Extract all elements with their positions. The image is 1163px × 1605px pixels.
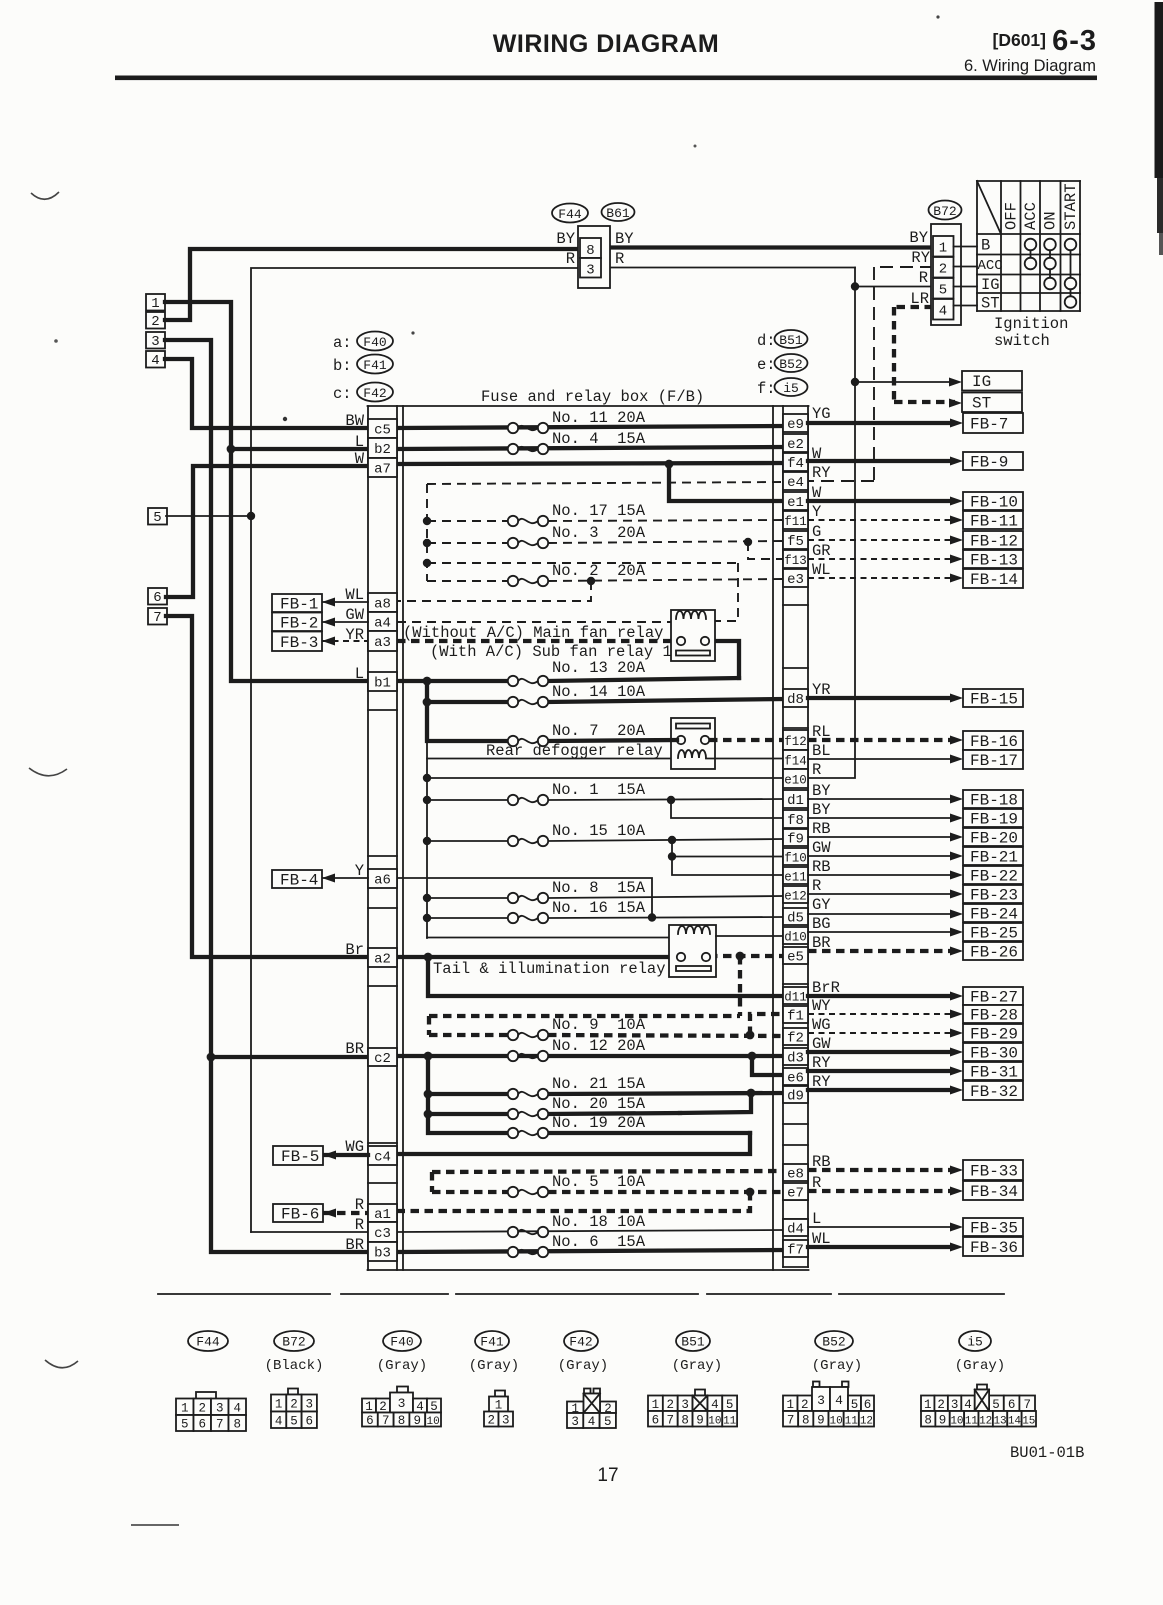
svg-text:f13: f13: [784, 554, 807, 568]
node box FB-27: [963, 987, 1023, 1007]
wire label BY at right strip y795: [812, 782, 831, 800]
wire label GW at right strip y1048: [812, 1035, 831, 1053]
svg-text:YG: YG: [812, 405, 831, 423]
svg-text:1: 1: [495, 1399, 503, 1413]
svg-text:4: 4: [939, 304, 947, 320]
svg-text:2: 2: [487, 1414, 495, 1428]
pin a8 (left strip): [368, 593, 397, 613]
svg-text:d3: d3: [787, 1051, 804, 1067]
svg-text:6: 6: [864, 1398, 872, 1412]
svg-text:f2: f2: [787, 1031, 804, 1047]
junction dot No.12 bus: [424, 1052, 433, 1061]
fuse No. 6 15A: [508, 1233, 646, 1257]
relay Tail and illumination caption: [433, 960, 666, 978]
svg-text:R: R: [812, 1174, 821, 1192]
svg-text:8: 8: [398, 1414, 406, 1428]
pin f7 (right strip): [783, 1240, 808, 1259]
wire No.1 output to d1 and f8: [548, 799, 783, 818]
svg-text:L: L: [812, 1210, 821, 1228]
svg-text:5: 5: [851, 1398, 859, 1412]
connector F41 legend oval: [333, 355, 393, 376]
pin d9 (right strip): [783, 1086, 808, 1105]
wire net L from box1 (b2/b1 feeder): [165, 302, 368, 681]
junction dot f10 tee: [668, 852, 676, 860]
wire label YG at right strip y418: [812, 405, 831, 423]
fuse No. 17 15A: [508, 502, 646, 526]
wire label WL at right strip y574: [812, 561, 831, 579]
wire to FB-19: [808, 814, 963, 823]
wire label BY at B72 pin1: [909, 229, 928, 247]
wire label BY at right strip y814: [812, 801, 831, 819]
junction dot b2 feeder: [227, 445, 236, 454]
svg-text:c4: c4: [374, 1150, 391, 1166]
wire relay coil feed line to Main fan relay: [427, 563, 738, 621]
wire to FB-5: [323, 1151, 368, 1160]
junction dot f1 branch: [746, 1031, 755, 1040]
svg-text:(Gray): (Gray): [377, 1358, 427, 1374]
wire No.18 row c3 to d4: [397, 1230, 783, 1232]
svg-text:3: 3: [951, 1398, 959, 1412]
wire label BR at right strip y947: [812, 934, 831, 952]
scan artifact arcs and specks: [29, 15, 940, 1526]
svg-text:BL: BL: [812, 742, 831, 760]
svg-text:OFF: OFF: [1003, 202, 1021, 230]
svg-text:(Gray): (Gray): [672, 1358, 722, 1374]
wire net BW from box4 to c5: [165, 359, 368, 428]
fuse No. 2 20A: [508, 562, 646, 586]
header rule line: [115, 76, 1097, 81]
svg-text:[D601]: [D601]: [993, 30, 1047, 50]
relay Tail and illumination relay: [669, 925, 716, 977]
node box FB-21: [963, 847, 1023, 867]
svg-text:FB-23: FB-23: [970, 887, 1018, 905]
svg-text:d:: d:: [757, 332, 776, 350]
wire label R at right strip y774: [812, 761, 821, 779]
wire net Br from box7 to a2: [166, 616, 368, 957]
node box FB-1: [272, 594, 322, 614]
svg-text:a3: a3: [374, 635, 391, 651]
pin f11 (right strip): [783, 511, 808, 529]
svg-text:RY: RY: [812, 1054, 831, 1072]
svg-text:R: R: [566, 250, 575, 268]
node box 7: [148, 608, 167, 626]
connector B52 pinout: [783, 1331, 874, 1427]
svg-text:BR: BR: [812, 934, 831, 952]
svg-text:9: 9: [817, 1413, 825, 1427]
node box 3: [146, 332, 165, 350]
pin f12 (right strip): [783, 730, 808, 750]
node box FB-7: [963, 413, 1023, 434]
svg-text:No. 5 10A: No. 5 10A: [552, 1173, 646, 1191]
wire net Br a2 row to Tail relay contact: [397, 955, 678, 959]
wire label RB at right strip y871: [812, 858, 831, 876]
wire e5 net drop to No.9 feed box: [738, 956, 742, 1016]
svg-text:R: R: [812, 877, 821, 895]
wire label L at left strip y446: [355, 433, 364, 451]
wire net RY pin2 to e4 (dashed): [808, 267, 933, 481]
svg-text:17: 17: [597, 1465, 618, 1486]
fuse No. 15 10A: [508, 822, 646, 846]
junction dot No.21 feed: [424, 1090, 433, 1099]
svg-text:GY: GY: [812, 896, 831, 914]
svg-text:LR: LR: [910, 290, 929, 308]
svg-text:6: 6: [153, 590, 161, 606]
svg-text:ON: ON: [1042, 211, 1060, 230]
svg-text:d5: d5: [787, 911, 804, 927]
node box FB-19: [963, 809, 1023, 829]
fuse No. 7 20A: [508, 722, 646, 746]
fuse No. 13 20A: [508, 659, 646, 686]
wire No.9 dashed feed box: [429, 1016, 740, 1035]
svg-text:W: W: [355, 450, 365, 468]
svg-text:d1: d1: [787, 793, 804, 809]
svg-text:c:: c:: [333, 385, 352, 403]
svg-text:a6: a6: [374, 873, 391, 889]
svg-text:FB-20: FB-20: [970, 830, 1018, 848]
pin e4 (right strip): [783, 472, 808, 491]
svg-text:7: 7: [153, 610, 161, 626]
node box FB-36: [963, 1237, 1023, 1257]
svg-text:No. 14 10A: No. 14 10A: [552, 683, 646, 701]
svg-text:BY: BY: [812, 782, 831, 800]
connector B51 pinout: [648, 1331, 737, 1427]
node box FB-2: [272, 613, 322, 633]
svg-text:RL: RL: [812, 723, 831, 741]
pin f4 (right strip): [783, 453, 808, 472]
svg-text:f12: f12: [784, 735, 807, 749]
junction dot RY to No.3: [423, 539, 431, 547]
wire to FB-22: [808, 871, 963, 880]
svg-text:7: 7: [787, 1413, 795, 1427]
wire to FB-10: [808, 497, 963, 506]
svg-text:Br: Br: [345, 941, 364, 959]
pin c4 (left strip): [368, 1146, 397, 1166]
connector F44 pinout: [176, 1331, 246, 1432]
node box FB-28: [963, 1005, 1023, 1025]
wire label GR at right strip y555: [812, 542, 831, 560]
fuse No. 20 15A: [508, 1095, 646, 1119]
connector strip d/e/f (right) rails: [783, 406, 808, 1267]
wire label RL at right strip y736: [812, 723, 831, 741]
svg-text:FB-24: FB-24: [970, 906, 1018, 924]
svg-text:BU01-01B: BU01-01B: [1010, 1444, 1084, 1462]
svg-text:RY: RY: [812, 1073, 831, 1091]
junction dot f10 branch: [668, 836, 676, 844]
wire to FB-32: [808, 1086, 963, 1095]
svg-text:START: START: [1062, 183, 1080, 230]
wire to FB-2: [322, 618, 368, 627]
svg-text:WG: WG: [812, 1016, 831, 1034]
connector F40 legend oval: [333, 332, 393, 353]
wire label L at left strip y678: [355, 665, 364, 683]
svg-text:BY: BY: [812, 801, 831, 819]
svg-text:14: 14: [1008, 1415, 1022, 1427]
svg-text:8: 8: [681, 1413, 689, 1427]
node box FB-15: [963, 689, 1023, 709]
svg-text:IG: IG: [972, 373, 991, 391]
svg-text:1: 1: [275, 1398, 283, 1412]
svg-text:F41: F41: [363, 358, 387, 373]
pin f5 (right strip): [783, 531, 808, 550]
svg-text:Tail & illumination relay: Tail & illumination relay: [433, 960, 666, 978]
svg-text:FB-36: FB-36: [970, 1239, 1018, 1257]
svg-text:FB-11: FB-11: [970, 513, 1018, 531]
svg-text:FB-13: FB-13: [970, 552, 1018, 570]
svg-text:F40: F40: [390, 1335, 413, 1350]
connector B72 pinout: [265, 1331, 324, 1428]
svg-text:e3: e3: [787, 572, 804, 588]
junction dot f8 branch: [667, 796, 675, 804]
node box FB-24: [963, 904, 1023, 924]
svg-text:4: 4: [275, 1414, 283, 1428]
wire label BrR at right strip y992: [812, 979, 840, 997]
pin a7 (left strip): [368, 458, 397, 478]
svg-text:d8: d8: [787, 692, 804, 708]
svg-text:switch: switch: [994, 332, 1050, 350]
junction dot e5 branch: [736, 952, 745, 961]
junction dot No.14 feed: [423, 698, 432, 707]
fuse No. 5 10A: [508, 1173, 646, 1197]
svg-text:W: W: [812, 445, 822, 463]
pin d4 (right strip): [783, 1219, 808, 1238]
svg-text:6: 6: [652, 1413, 660, 1427]
pin e2 (right strip): [783, 434, 808, 453]
fuse and relay box caption: [481, 388, 704, 406]
wire label RY at B72 pin2: [911, 249, 930, 267]
svg-text:Fuse and relay box (F/B): Fuse and relay box (F/B): [481, 388, 704, 406]
wire to FB-34: [808, 1187, 963, 1196]
svg-text:b1: b1: [374, 676, 391, 692]
wire label WG at right strip y1029: [812, 1016, 831, 1034]
svg-text:11: 11: [965, 1415, 979, 1427]
fuse No. 1 15A: [508, 781, 646, 805]
svg-text:1: 1: [652, 1398, 660, 1412]
ignition switch contact table: [954, 181, 1081, 313]
svg-text:GW: GW: [812, 1035, 831, 1053]
svg-text:(Black): (Black): [265, 1358, 324, 1374]
svg-text:FB-3: FB-3: [280, 634, 318, 652]
wire c2 bus to No.21/No.20/No.19: [428, 1056, 508, 1133]
junction dot RY to No.17: [423, 517, 431, 525]
fuse No. 3 20A: [508, 524, 646, 548]
svg-text:RB: RB: [812, 1153, 831, 1171]
wire to FB-20: [808, 833, 963, 842]
wire label R left of F44: [566, 250, 575, 268]
wire to FB-13: [808, 555, 963, 564]
svg-text:RY: RY: [911, 249, 930, 267]
svg-text:F44: F44: [558, 207, 582, 222]
page header title: [493, 30, 719, 58]
pin f14 (right strip): [783, 750, 808, 769]
svg-text:1: 1: [181, 1401, 189, 1415]
junction dot R at pin5 branch: [851, 282, 859, 290]
connector F41 pinout: [469, 1331, 519, 1428]
svg-text:6: 6: [305, 1414, 313, 1428]
wire label GW at left strip y619: [345, 606, 364, 624]
junction dot c2 feeder: [207, 1053, 216, 1062]
svg-text:R: R: [919, 269, 928, 287]
wire No.19 output to c4 WG: [397, 1133, 750, 1154]
relay Rear defogger relay: [671, 718, 715, 769]
svg-text:4: 4: [233, 1401, 241, 1415]
svg-text:6-3: 6-3: [1052, 25, 1097, 57]
svg-text:FB-21: FB-21: [970, 849, 1018, 867]
svg-text:BW: BW: [345, 412, 364, 430]
svg-text:10: 10: [950, 1415, 963, 1427]
svg-text:2: 2: [937, 1398, 945, 1412]
pin e1 (right strip): [783, 492, 808, 511]
svg-text:9: 9: [939, 1413, 947, 1427]
svg-text:No. 17 15A: No. 17 15A: [552, 502, 646, 520]
wire label R at left strip y1209: [355, 1196, 364, 1214]
svg-text:B72: B72: [933, 204, 956, 219]
connector B51 legend oval: [757, 330, 808, 350]
svg-text:a4: a4: [374, 616, 391, 632]
svg-text:B61: B61: [606, 206, 630, 221]
svg-text:FB-17: FB-17: [970, 752, 1018, 770]
svg-text:ACC: ACC: [978, 258, 1003, 274]
svg-text:e2: e2: [787, 437, 804, 453]
fuse No. 14 10A: [508, 683, 646, 707]
svg-text:12: 12: [979, 1415, 992, 1427]
wire a3 YR to Main fan relay contact (bold dashed): [397, 639, 677, 643]
wire label BW at left strip y425: [345, 412, 364, 430]
node box FB-3: [272, 632, 322, 652]
svg-text:c5: c5: [374, 423, 391, 439]
svg-text:15: 15: [1022, 1415, 1035, 1427]
pin c2 (left strip): [368, 1048, 397, 1067]
svg-text:FB-9: FB-9: [970, 454, 1008, 472]
svg-text:B51: B51: [779, 333, 803, 348]
svg-text:BY: BY: [615, 230, 634, 248]
svg-text:B51: B51: [681, 1335, 705, 1350]
svg-text:BY: BY: [556, 230, 575, 248]
wire label BY right of B61: [615, 230, 634, 248]
svg-text:Y: Y: [812, 503, 822, 521]
pin d3 (right strip): [783, 1048, 808, 1067]
svg-text:FB-28: FB-28: [970, 1007, 1018, 1025]
svg-text:No. 2 20A: No. 2 20A: [552, 562, 646, 580]
svg-text:3: 3: [681, 1398, 689, 1412]
wire label RB at right strip y833: [812, 820, 831, 838]
svg-text:FB-10: FB-10: [970, 494, 1018, 512]
svg-text:(Gray): (Gray): [558, 1358, 608, 1374]
relay Main fan relay caption: [403, 624, 672, 661]
wire to FB-36: [808, 1243, 963, 1252]
svg-text:6: 6: [366, 1414, 374, 1428]
wire No.21 and No.20 outputs to d9: [548, 1093, 783, 1114]
connector F40 pinout: [362, 1331, 441, 1428]
svg-text:No. 4 15A: No. 4 15A: [552, 430, 646, 448]
svg-text:1: 1: [924, 1398, 932, 1412]
svg-text:No. 3 20A: No. 3 20A: [552, 524, 646, 542]
svg-text:FB-29: FB-29: [970, 1026, 1018, 1044]
junction dot No.1 feed: [423, 796, 431, 804]
svg-text:No. 11 20A: No. 11 20A: [552, 409, 646, 427]
wire No.11 row c5 to e9: [397, 426, 783, 428]
svg-text:a:: a:: [333, 334, 352, 352]
svg-text:4: 4: [151, 353, 159, 369]
wire label YR at right strip y694: [812, 681, 831, 699]
svg-text:BY: BY: [909, 229, 928, 247]
wire to FB-6: [323, 1209, 368, 1218]
connector i5 legend oval: [757, 378, 808, 398]
node box FB-23: [963, 885, 1023, 905]
wire label BR at left strip y1249: [345, 1236, 364, 1254]
svg-text:8: 8: [233, 1418, 241, 1432]
fuse No. 9 10A: [508, 1016, 646, 1040]
node box FB-18: [963, 790, 1023, 810]
svg-text:i5: i5: [783, 381, 799, 396]
svg-text:(Gray): (Gray): [812, 1358, 862, 1374]
wire label GW at right strip y852: [812, 839, 831, 857]
wire to FB-4: [322, 874, 368, 883]
wire to FB-16: [808, 736, 963, 745]
wire to FB-27: [808, 992, 963, 1001]
svg-text:(Gray): (Gray): [955, 1358, 1005, 1374]
svg-text:W: W: [812, 484, 822, 502]
svg-text:(Gray): (Gray): [469, 1358, 519, 1374]
svg-text:d4: d4: [787, 1222, 804, 1238]
pin e7 (right strip): [783, 1183, 808, 1202]
node box FB-25: [963, 923, 1023, 943]
svg-text:1: 1: [786, 1398, 794, 1412]
wire thin L bus continuation (coil/e10/No.1/No.15/No.8/No.16/Tail coil): [427, 741, 783, 938]
wire label R at right strip y1187: [812, 1174, 821, 1192]
wire label W at right strip y497: [812, 484, 822, 502]
svg-text:FB-6: FB-6: [281, 1206, 319, 1224]
node box FB-10: [963, 492, 1023, 512]
wire label BR at left strip y1053: [345, 1040, 364, 1058]
svg-text:d10: d10: [784, 931, 807, 945]
pin e8 (right strip): [783, 1164, 808, 1183]
connector F42 legend oval: [333, 383, 393, 404]
node box FB-20: [963, 828, 1023, 848]
svg-text:WY: WY: [812, 997, 831, 1015]
svg-text:b3: b3: [374, 1246, 391, 1262]
pin f9 (right strip): [783, 829, 808, 848]
svg-text:f14: f14: [784, 755, 807, 769]
svg-text:FB-14: FB-14: [970, 571, 1018, 589]
svg-text:WL: WL: [812, 561, 831, 579]
svg-text:F42: F42: [363, 386, 386, 401]
svg-text:4: 4: [711, 1398, 719, 1412]
svg-text:No. 21 15A: No. 21 15A: [552, 1075, 646, 1093]
node box FB-5: [273, 1146, 323, 1166]
svg-text:2: 2: [939, 262, 947, 278]
wire label Br at left strip y954: [345, 941, 364, 959]
svg-text:13: 13: [993, 1415, 1006, 1427]
svg-text:b2: b2: [374, 442, 391, 458]
svg-text:FB-7: FB-7: [970, 416, 1008, 434]
svg-text:10: 10: [426, 1416, 439, 1428]
junction dot No.8 feed: [423, 894, 431, 902]
wire label R right of B61: [615, 250, 624, 268]
svg-text:e4: e4: [787, 475, 804, 491]
svg-text:No. 12 20A: No. 12 20A: [552, 1037, 646, 1055]
wire to FB-11: [808, 516, 963, 525]
wire to FB-18: [808, 795, 963, 804]
wire net W from box6 to a7: [166, 466, 368, 597]
wire label R at right strip y890: [812, 877, 821, 895]
pin f8 (right strip): [783, 810, 808, 829]
svg-text:2: 2: [801, 1398, 809, 1412]
svg-text:FB-31: FB-31: [970, 1064, 1018, 1082]
svg-text:FB-26: FB-26: [970, 944, 1018, 962]
svg-text:d11: d11: [784, 991, 807, 1005]
fuse No. 18 10A: [508, 1213, 646, 1237]
junction dot box5 tee: [247, 512, 255, 520]
